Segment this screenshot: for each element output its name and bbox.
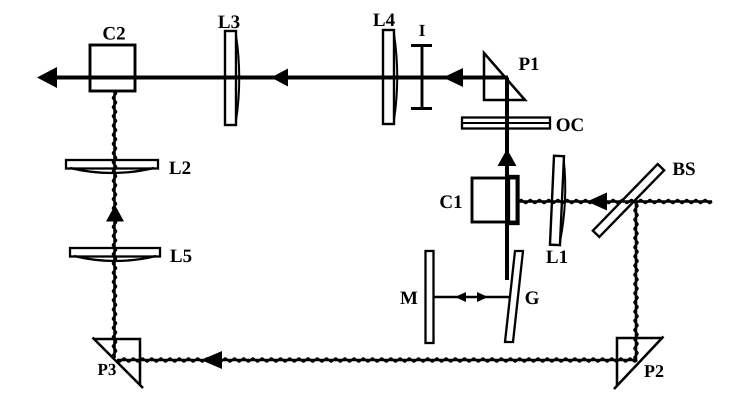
beam: bottom horizontal wavy (P2 to P3) <box>117 351 637 369</box>
svg-text:C2: C2 <box>102 24 125 45</box>
svg-text:P2: P2 <box>644 361 664 381</box>
beamsplitter BS <box>593 164 664 237</box>
beam: left vertical wavy (C2 down to P3) <box>106 91 124 358</box>
lens L1 <box>550 156 567 245</box>
svg-text:G: G <box>525 288 540 309</box>
dye cell C1 <box>472 178 517 222</box>
svg-text:I: I <box>419 21 426 40</box>
amplifier cell C2 <box>90 45 135 91</box>
svg-text:P3: P3 <box>98 360 117 379</box>
beam: BS down to P2 wavy <box>634 204 638 363</box>
svg-text:P1: P1 <box>518 54 539 75</box>
svg-text:L2: L2 <box>169 158 191 179</box>
svg-text:C1: C1 <box>439 192 462 213</box>
grating G <box>505 251 523 342</box>
output coupler OC <box>462 118 550 129</box>
lens L2 <box>66 160 158 173</box>
svg-text:L5: L5 <box>170 246 192 267</box>
lens L3 <box>225 31 239 125</box>
svg-text:L3: L3 <box>218 12 240 33</box>
mirror M <box>426 251 434 343</box>
lens L4 <box>383 30 397 124</box>
svg-text:BS: BS <box>672 159 695 180</box>
beam: pump beam horizontal right wavy <box>518 193 712 211</box>
prism P2 <box>614 337 664 390</box>
iris I <box>411 46 432 110</box>
prism P1 <box>484 53 525 100</box>
svg-text:OC: OC <box>556 115 585 136</box>
tuning arrow between M and G <box>434 292 510 302</box>
svg-text:M: M <box>400 288 418 309</box>
prism P3 <box>93 338 144 389</box>
svg-text:L4: L4 <box>373 10 396 31</box>
beam: vertical P1 to grating (solid) <box>498 78 517 281</box>
lens L5 <box>70 248 160 261</box>
beam: main output horizontal (top) <box>37 67 508 88</box>
window at C1 right face <box>509 176 519 224</box>
svg-text:L1: L1 <box>546 247 568 268</box>
